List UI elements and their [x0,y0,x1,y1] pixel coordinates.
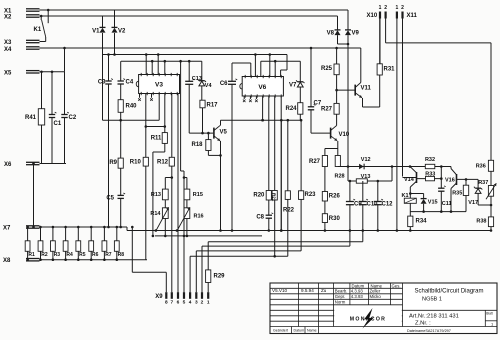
svg-text:Bearb.: Bearb. [335,289,348,294]
svg-text:R40: R40 [126,104,138,110]
svg-text:R25: R25 [321,66,333,72]
svg-text:R31: R31 [384,67,396,73]
svg-text:X9: X9 [155,294,163,300]
svg-text:X8: X8 [3,258,11,264]
svg-text:Norm: Norm [335,300,346,305]
svg-text:8: 8 [165,300,168,306]
svg-text:1: 1 [379,5,382,11]
svg-text:5: 5 [183,300,186,306]
svg-text:R24: R24 [285,106,297,112]
svg-text:R10: R10 [130,160,142,166]
svg-text:R6: R6 [92,252,99,258]
svg-text:C4: C4 [126,80,134,86]
svg-text:V15: V15 [428,199,438,205]
svg-text:R33: R33 [425,172,435,178]
svg-text:R17: R17 [207,103,219,109]
svg-text:R1: R1 [28,252,35,258]
svg-text:R8: R8 [118,252,125,258]
svg-text:V3: V3 [155,81,163,88]
svg-text:Zeller: Zeller [370,289,381,294]
svg-text:C11: C11 [442,201,452,207]
svg-text:V2: V2 [118,29,126,35]
svg-text:4.3.93: 4.3.93 [351,289,364,294]
svg-text:4: 4 [189,300,192,306]
svg-text:R5: R5 [79,252,86,258]
svg-text:R18: R18 [191,142,203,148]
svg-text:2: 2 [384,5,387,11]
svg-text:R22: R22 [283,208,295,214]
svg-text:R13: R13 [151,192,161,198]
svg-text:R4: R4 [66,252,73,258]
svg-text:V11: V11 [361,86,372,92]
svg-text:3: 3 [195,300,198,306]
svg-text:R26: R26 [329,194,341,200]
svg-text:R27: R27 [321,107,333,113]
svg-text:V5.V10: V5.V10 [272,288,288,293]
svg-text:R34: R34 [416,219,428,225]
svg-text:R28: R28 [335,174,345,180]
svg-text:V12: V12 [361,157,371,163]
svg-text:R36: R36 [476,163,486,169]
svg-text:Micko: Micko [370,294,382,299]
svg-text:R11: R11 [151,136,162,142]
svg-text:C8: C8 [256,214,264,220]
svg-text:R14: R14 [150,211,161,217]
svg-text:V14: V14 [404,177,415,183]
svg-text:Schaltbild/Circuit Diagram: Schaltbild/Circuit Diagram [414,289,483,295]
svg-text:Art.Nr.:218 311 431: Art.Nr.:218 311 431 [409,314,459,320]
svg-text:V17: V17 [468,200,478,206]
svg-text:C3: C3 [98,80,106,86]
svg-text:1: 1 [396,5,399,11]
svg-text:R30: R30 [329,216,341,222]
svg-text:9.5.94: 9.5.94 [301,288,314,293]
svg-text:V9: V9 [352,31,360,37]
svg-text:X11: X11 [407,13,418,19]
svg-text:R21: R21 [272,193,277,202]
svg-text:R16: R16 [194,214,204,220]
svg-text:7: 7 [170,300,173,306]
svg-text:R35: R35 [452,191,462,197]
svg-text:Blatt: Blatt [486,312,492,316]
svg-text:R9: R9 [109,160,117,166]
svg-text:R38: R38 [476,219,486,225]
svg-text:C6: C6 [220,81,228,87]
svg-text:K1: K1 [34,27,42,33]
svg-text:V6: V6 [258,84,266,91]
svg-text:NG5B 1: NG5B 1 [422,297,442,303]
svg-text:R2: R2 [41,252,48,258]
svg-text:R7: R7 [105,252,112,258]
svg-text:2: 2 [201,300,204,306]
svg-text:V5: V5 [220,130,228,136]
svg-text:DateinameSA217A79/297: DateinameSA217A79/297 [407,329,451,333]
svg-text:R41: R41 [25,115,37,121]
svg-text:V16: V16 [445,178,455,184]
svg-text:X3: X3 [4,40,12,46]
svg-text:Ges.: Ges. [392,283,401,288]
svg-text:V1: V1 [92,29,100,35]
svg-text:Datum: Datum [294,329,305,333]
svg-text:Name: Name [307,329,317,333]
svg-text:V4: V4 [205,83,213,89]
svg-text:X2: X2 [4,15,12,21]
svg-text:Gepr.: Gepr. [335,294,346,299]
svg-text:R20: R20 [253,193,265,199]
svg-text:X4: X4 [4,47,12,53]
svg-text:X5: X5 [4,70,12,76]
svg-text:R3: R3 [54,252,61,258]
svg-text:X7: X7 [3,226,11,232]
svg-text:C12: C12 [382,202,394,208]
svg-text:Zu: Zu [321,288,327,293]
svg-text:1: 1 [207,300,210,306]
svg-text:Geändert: Geändert [273,329,288,333]
svg-text:X10: X10 [367,13,378,19]
svg-text:R23: R23 [305,192,317,198]
svg-text:V13: V13 [361,174,371,180]
svg-text:4.3.93: 4.3.93 [351,294,364,299]
svg-text:R12: R12 [157,160,169,166]
svg-text:C1: C1 [54,121,62,127]
svg-text:C2: C2 [69,115,77,121]
svg-text:V7: V7 [289,83,297,89]
svg-text:Z.Nr. :: Z.Nr. : [415,321,431,327]
svg-text:V10: V10 [339,132,350,138]
svg-text:V8: V8 [327,31,335,37]
svg-text:R29: R29 [214,274,226,280]
svg-text:2: 2 [401,5,404,11]
svg-text:K1: K1 [402,193,409,199]
svg-text:R37: R37 [478,180,488,186]
svg-text:6: 6 [177,300,180,306]
svg-text:R15: R15 [193,192,203,198]
svg-text:R27: R27 [309,159,321,165]
svg-text:R32: R32 [425,157,435,163]
svg-text:X6: X6 [4,162,12,168]
svg-text:C5: C5 [106,196,114,202]
